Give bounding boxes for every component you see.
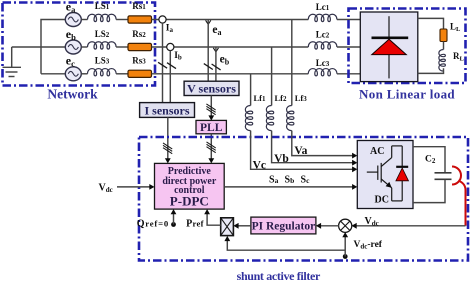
- capacitor C2: [435, 173, 452, 180]
- node Ib tap circle: [167, 43, 174, 50]
- non linear load boundary box: [349, 9, 466, 84]
- svg-text:Rs2: Rs2: [132, 29, 146, 39]
- inductor Lc2: [308, 42, 337, 49]
- box PI Regulator: [251, 217, 316, 234]
- transistor IGBT: [367, 146, 392, 201]
- wire Lc1 to load: [337, 19, 360, 21]
- resistor Rs2: [128, 43, 152, 50]
- svg-text:Vdc: Vdc: [99, 182, 113, 194]
- inductor Lf2: [266, 106, 273, 131]
- slash marks I sensors to P-DPC: [163, 143, 172, 154]
- wire Ib drop to I sensors: [169, 51, 171, 103]
- resistor Rs3: [128, 70, 152, 77]
- ground: [3, 47, 22, 77]
- source ea: [65, 13, 81, 27]
- svg-text:Vdc-ref: Vdc-ref: [354, 240, 383, 251]
- wire a LS1 to Rs1: [116, 19, 128, 21]
- arrow IGBT emitter: [386, 182, 392, 188]
- wire Lf1 drop from phase c: [250, 74, 252, 106]
- svg-text:Vdc: Vdc: [365, 216, 379, 228]
- wire phase a bus segment: [41, 20, 65, 74]
- node Qref terminal dot: [171, 222, 176, 227]
- wire PLL to P-DPC: [210, 134, 212, 162]
- svg-text:eb: eb: [220, 54, 230, 67]
- slash marks V sensors to PLL: [206, 104, 215, 115]
- inductor LS2: [88, 42, 117, 49]
- node ea tap arrowhead: [206, 20, 211, 24]
- svg-text:SaSbSc: SaSbSc: [269, 174, 310, 185]
- svg-text:LS2: LS2: [95, 29, 110, 39]
- inductor Lf3: [287, 106, 294, 131]
- wire Lf2 drop from phase b: [271, 47, 273, 106]
- wire Lf3 drop from phase a: [291, 20, 293, 106]
- svg-text:I sensors: I sensors: [144, 103, 189, 117]
- svg-text:Lc2: Lc2: [316, 30, 330, 40]
- arrow feedback into multiplier: [224, 236, 230, 241]
- wire converter to capacitor top: [413, 147, 445, 173]
- inductor LS3: [88, 69, 117, 76]
- wire Lc3 to load: [337, 73, 360, 75]
- box PLL: [196, 120, 226, 133]
- svg-text:PLL: PLL: [200, 122, 223, 134]
- wire Va bend: [292, 131, 355, 156]
- inductor Lc3: [308, 69, 337, 76]
- svg-text:LL: LL: [450, 22, 461, 34]
- summer circle with X: [339, 219, 352, 232]
- inductor LS1: [88, 14, 117, 21]
- wire eb drop to V sensors: [215, 47, 217, 81]
- slash marks PLL to P-DPC: [207, 142, 216, 153]
- inductor Lf1: [245, 106, 252, 131]
- wire phase a bus to Lc1: [152, 19, 309, 21]
- arrow Vdc into summer: [352, 223, 357, 229]
- arrow Vc into converter: [352, 166, 357, 172]
- wire Qref to P-DPC: [173, 212, 175, 225]
- svg-text:Rs1: Rs1: [132, 1, 146, 11]
- svg-text:Lc1: Lc1: [316, 2, 330, 12]
- svg-text:Network: Network: [47, 87, 98, 102]
- svg-text:Rs3: Rs3: [132, 56, 146, 66]
- svg-text:Ia: Ia: [166, 24, 174, 35]
- svg-text:Pref: Pref: [186, 218, 204, 229]
- svg-text:RL: RL: [453, 51, 465, 63]
- wire phase c bus to Lc3: [152, 73, 309, 75]
- wire feedback from Vdc-ref line to multiplier: [227, 238, 345, 250]
- wire phase b bus to Lc2: [152, 46, 309, 48]
- converter box AC DC: [357, 141, 413, 209]
- network boundary box: [3, 3, 156, 86]
- svg-text:shunt active filter: shunt active filter: [237, 269, 321, 282]
- wire load bottom loop: [418, 68, 444, 73]
- wire ea drop to V sensors: [207, 20, 209, 82]
- wire V sensors to PLL: [210, 96, 212, 120]
- arrow Vdc-ref into summer: [342, 232, 348, 237]
- source eb: [65, 40, 81, 54]
- box I sensors: [140, 103, 195, 118]
- box V sensors: [184, 81, 239, 95]
- wire Vdc-ref up to summer: [344, 234, 346, 257]
- inductor Lc1: [308, 14, 337, 21]
- red sensor arc on capacitor: [452, 167, 461, 185]
- arrow Vdc into P-DPC: [149, 184, 154, 190]
- box P-DPC: [155, 163, 225, 209]
- red wire to Vdc: [458, 181, 465, 226]
- svg-text:Lf1: Lf1: [254, 93, 267, 103]
- wire Sa Sb Sc from P-DPC to converter: [224, 186, 355, 188]
- rectifier bridge box: [360, 12, 418, 82]
- arrow into PI regulator: [316, 223, 321, 229]
- resistor Rs1: [128, 16, 152, 23]
- svg-text:LS1: LS1: [95, 1, 110, 11]
- svg-text:Qref=0: Qref=0: [137, 219, 169, 230]
- wire Ia drop to I sensors: [162, 23, 164, 103]
- svg-text:ea: ea: [212, 24, 221, 37]
- arrow I sensors into P-DPC: [165, 158, 171, 163]
- source ec: [65, 67, 81, 81]
- arrow Va into converter: [352, 153, 357, 159]
- svg-text:P-DPC: P-DPC: [170, 193, 209, 208]
- wire summer to PI regulator: [318, 225, 339, 227]
- label Predictive direct power control: [162, 166, 217, 196]
- wire b source to LS2: [81, 46, 87, 48]
- multiplier box with X: [221, 218, 234, 236]
- node Ia tap circle: [159, 16, 166, 23]
- wire c LS3 to Rs3: [116, 73, 128, 75]
- svg-text:eb: eb: [66, 27, 76, 42]
- wire load top loop: [418, 18, 444, 29]
- wire Vc bend: [251, 131, 355, 170]
- svg-text:Vc: Vc: [253, 159, 266, 171]
- arrow PLL into P-DPC: [208, 158, 214, 163]
- wire Lc2 to load: [337, 46, 360, 48]
- wire Vdc into P-DPC: [117, 186, 152, 188]
- arrow into multiplier: [233, 223, 238, 229]
- svg-text:C2: C2: [425, 155, 436, 166]
- wire Vdc to summer: [354, 225, 466, 227]
- arrow Pref into P-DPC: [204, 209, 210, 214]
- svg-text:LS3: LS3: [95, 56, 110, 66]
- shunt active filter boundary box: [139, 137, 468, 261]
- svg-text:DC: DC: [375, 195, 389, 206]
- wire Vb bend: [272, 131, 355, 163]
- rectifier cathode bar: [372, 36, 409, 39]
- wire Pref from multiplier to P-DPC: [207, 212, 221, 226]
- wire capacitor bottom to converter: [413, 180, 445, 203]
- wire I sensors to P-DPC: [167, 117, 169, 162]
- arrow Vb into converter: [352, 160, 357, 166]
- wire c source to LS3: [81, 73, 87, 75]
- svg-text:Vb: Vb: [274, 153, 289, 165]
- arrow Sa Sb Sc into converter: [352, 184, 357, 190]
- svg-text:AC: AC: [370, 146, 384, 157]
- wire phase c left branch: [41, 73, 65, 75]
- arrow into PLL: [208, 115, 214, 120]
- svg-text:Non Linear load: Non Linear load: [359, 86, 455, 101]
- arrow Qref into P-DPC: [171, 209, 177, 214]
- wire phase b left branch: [12, 46, 66, 48]
- slash marks on ea eb drops: [204, 64, 221, 70]
- diode freewheel red: [392, 146, 409, 201]
- svg-text:Lc3: Lc3: [316, 58, 330, 68]
- wire PI regulator to multiplier: [236, 225, 251, 227]
- svg-text:Lf3: Lf3: [295, 93, 308, 103]
- slash marks on Ia Ib drops: [158, 62, 176, 68]
- resistor LL: [440, 29, 447, 42]
- svg-text:V sensors: V sensors: [187, 82, 236, 96]
- inductor RL: [439, 50, 446, 72]
- svg-text:Lf2: Lf2: [275, 93, 288, 103]
- wire b LS2 to Rs2: [116, 46, 128, 48]
- rectifier center line: [388, 16, 390, 78]
- svg-text:ec: ec: [66, 54, 75, 69]
- wire LL to RL: [443, 42, 445, 50]
- node Vdc-ref terminal dot: [343, 254, 348, 259]
- svg-text:PI Regulator: PI Regulator: [252, 221, 316, 233]
- wire a source to LS1: [81, 19, 87, 21]
- svg-text:Va: Va: [294, 145, 307, 157]
- svg-text:Ib: Ib: [174, 51, 182, 62]
- rectifier diode triangle: [372, 39, 407, 54]
- node eb tap arrowhead: [213, 48, 218, 52]
